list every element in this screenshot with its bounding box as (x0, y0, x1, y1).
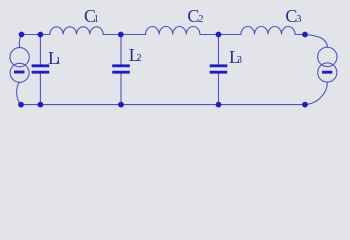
svg-text:L1: L1 (48, 48, 61, 68)
svg-text:L2: L2 (129, 45, 142, 65)
